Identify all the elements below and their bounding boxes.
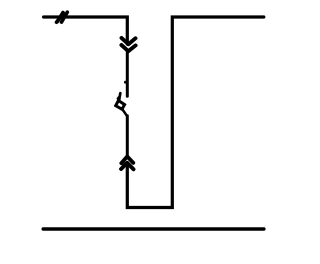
switch S1: square body — [116, 101, 125, 110]
wire: switch to up arrow — [126, 116, 129, 157]
current direction arrow (up), chevron 1 — [121, 157, 133, 164]
current direction arrow (down), chevron 1 — [122, 38, 136, 44]
current direction arrow (up), chevron 2 — [121, 163, 133, 170]
switch S1: blade lower segment — [122, 109, 127, 116]
break mark (double slash) on top-left wire — [57, 12, 68, 22]
switch S1: blade upper stroke — [119, 93, 120, 101]
junction nub on wire — [124, 81, 127, 84]
wire: down to dip bottom, across, up right vertical, top-right horizontal — [127, 17, 263, 208]
bottom rail line — [43, 227, 264, 230]
wire: top-left horizontal with corner down — [44, 17, 128, 44]
switch S1: tip spur — [118, 96, 120, 98]
current direction arrow (down), chevron 2 — [121, 45, 135, 51]
wire: left vertical, arrow to switch — [126, 51, 129, 96]
